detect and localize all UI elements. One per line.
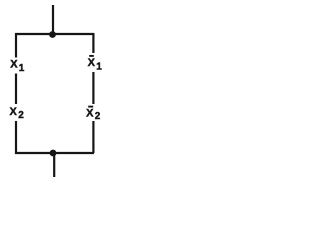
svg-text:1: 1 bbox=[96, 62, 102, 73]
node bottom junction bbox=[50, 150, 57, 157]
wire top horizontal bus bbox=[15, 33, 94, 35]
svg-text:X: X bbox=[10, 59, 18, 71]
svg-text:1: 1 bbox=[19, 63, 25, 74]
contact X2 bbox=[10, 106, 25, 121]
svg-text:2: 2 bbox=[95, 111, 101, 122]
svg-text:2: 2 bbox=[18, 110, 24, 121]
wire right branch lower segment bbox=[92, 121, 94, 153]
wire left branch lower segment bbox=[15, 121, 17, 154]
node top junction bbox=[49, 31, 56, 38]
contact X1-bar bbox=[88, 56, 103, 73]
wire bottom horizontal bus bbox=[15, 152, 94, 154]
svg-text:X: X bbox=[88, 57, 96, 69]
wire right branch upper segment bbox=[92, 33, 94, 53]
wire left branch middle segment bbox=[15, 74, 17, 105]
contact X2-bar bbox=[86, 107, 101, 122]
wire right branch middle segment bbox=[92, 72, 94, 104]
svg-text:X: X bbox=[10, 106, 18, 118]
svg-text:X: X bbox=[86, 108, 94, 120]
wire left branch upper segment bbox=[15, 33, 17, 58]
contact X1 bbox=[10, 59, 24, 75]
wire bottom output stem bbox=[53, 153, 55, 177]
wire top input stem bbox=[52, 5, 54, 34]
